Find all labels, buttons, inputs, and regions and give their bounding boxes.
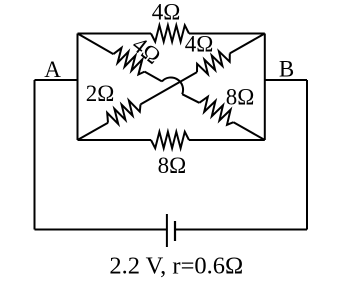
wire: battery to bottom outer right <box>175 229 307 231</box>
wire: R4 to TR corner <box>230 34 265 54</box>
svg-text:2Ω: 2Ω <box>86 81 115 106</box>
wire: node A lead <box>35 79 78 81</box>
svg-text:B: B <box>279 56 294 81</box>
svg-text:4Ω: 4Ω <box>185 32 214 57</box>
resistor R6 8ohm (bottom edge) <box>151 132 189 148</box>
wire: hop end to R5 <box>182 94 199 103</box>
wire: bottom outer left to battery <box>35 229 167 231</box>
svg-text:8Ω: 8Ω <box>226 85 255 110</box>
resistor R5 8ohm (lower-right diagonal) <box>199 97 233 125</box>
wire: top edge left segment <box>78 33 152 35</box>
resistor R2 4ohm (upper-left diagonal) <box>113 48 144 75</box>
battery V1 positive plate (long) <box>166 214 168 247</box>
resistor R4 4ohm (upper-right diagonal) <box>197 51 230 74</box>
wire: bottom edge right segment <box>189 139 265 141</box>
wire: right edge of bridge box <box>264 34 266 141</box>
wire: left outer drop <box>34 80 36 230</box>
battery V1 negative plate (short) <box>174 221 176 241</box>
wire: R5 to BR corner <box>234 122 265 140</box>
wire: diagonal TL to R2 <box>78 34 114 55</box>
wire: node B lead <box>265 79 307 81</box>
wire: right outer drop <box>306 80 308 230</box>
wire hop (crossover jump arc) <box>162 77 183 94</box>
resistor R3 2ohm (lower-left diagonal) <box>107 101 140 124</box>
wire: R3 through crossing to R4 <box>141 72 198 104</box>
wire: left edge of bridge box <box>77 34 79 141</box>
wire: diagonal BL to R3 <box>78 123 109 140</box>
resistor R1 4ohm (top edge) <box>151 25 189 41</box>
svg-text:8Ω: 8Ω <box>158 153 187 178</box>
svg-text:A: A <box>44 57 61 82</box>
svg-text:4Ω: 4Ω <box>152 0 181 25</box>
svg-text:2.2 V, r=0.6Ω: 2.2 V, r=0.6Ω <box>109 253 243 280</box>
wire: bottom edge left segment <box>78 139 152 141</box>
wire: top edge right segment <box>189 33 265 35</box>
wire: R2 to hop start <box>145 72 162 82</box>
